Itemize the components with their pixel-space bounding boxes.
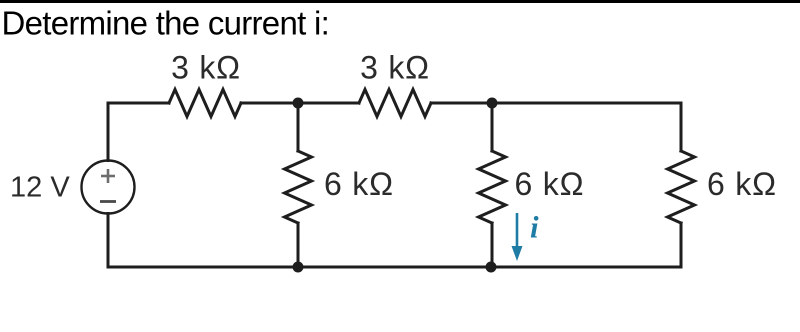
- wire: left vertical below source: [107, 214, 110, 268]
- voltage source plus sign: [101, 169, 115, 183]
- svg-text:i: i: [530, 210, 539, 245]
- svg-text:6 kΩ: 6 kΩ: [707, 166, 777, 202]
- node dot top-left junction: [293, 98, 304, 109]
- svg-text:3 kΩ: 3 kΩ: [360, 50, 430, 86]
- wire: node B vertical top stub: [491, 103, 494, 151]
- wire: top right segment: [431, 102, 681, 105]
- resistor R3 6k vertical zigzag: [285, 151, 312, 223]
- wire: left vertical above source: [107, 103, 110, 161]
- wire: top middle segment: [241, 102, 359, 105]
- wire: node A vertical top stub: [297, 103, 300, 151]
- resistor R4 6k vertical zigzag: [479, 151, 506, 223]
- resistor R2 3k horizontal zigzag: [359, 90, 431, 117]
- node dot bottom-left junction: [293, 262, 304, 273]
- svg-text:Determine the current i:: Determine the current i:: [2, 5, 330, 42]
- svg-text:3 kΩ: 3 kΩ: [171, 50, 241, 86]
- svg-text:12 V: 12 V: [10, 172, 70, 204]
- wire: right vertical bottom stub: [680, 223, 683, 267]
- node dot top-right junction: [487, 98, 498, 109]
- voltage source minus sign: [100, 200, 116, 203]
- wire: top-left segment: [108, 102, 169, 105]
- voltage source V1 circle: [82, 161, 135, 214]
- wire: bottom horizontal: [108, 266, 681, 269]
- node dot bottom-right junction: [486, 262, 497, 273]
- top border bar: [0, 0, 800, 3]
- current arrow i: [512, 213, 523, 261]
- resistor R5 6k vertical zigzag: [668, 151, 695, 223]
- wire: node B vertical bottom stub: [491, 223, 494, 267]
- resistor R1 3k horizontal zigzag: [169, 90, 241, 117]
- svg-text:6 kΩ: 6 kΩ: [324, 166, 394, 202]
- wire: right vertical top stub: [680, 103, 683, 151]
- wire: node A vertical bottom stub: [297, 223, 300, 267]
- svg-text:6 kΩ: 6 kΩ: [515, 166, 585, 202]
